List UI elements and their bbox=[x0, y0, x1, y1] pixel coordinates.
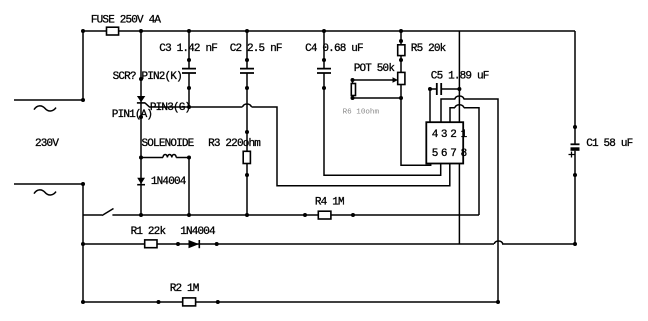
svg-text:PIN1(A): PIN1(A) bbox=[112, 109, 152, 121]
svg-text:230V: 230V bbox=[35, 138, 59, 150]
svg-text:R2 1M: R2 1M bbox=[170, 283, 199, 295]
svg-text:SCR? PIN2(K): SCR? PIN2(K) bbox=[113, 71, 182, 83]
svg-text:R4 1M: R4 1M bbox=[315, 196, 344, 208]
svg-text:R1 22k: R1 22k bbox=[131, 226, 167, 238]
svg-text:R5 20k: R5 20k bbox=[411, 43, 447, 55]
svg-text:C4 0.68 uF: C4 0.68 uF bbox=[305, 43, 363, 55]
svg-text:PIN3(G): PIN3(G) bbox=[150, 102, 190, 114]
svg-text:C5 1.89 uF: C5 1.89 uF bbox=[431, 71, 489, 83]
svg-text:C3 1.42 nF: C3 1.42 nF bbox=[159, 43, 217, 55]
svg-text:2: 2 bbox=[450, 129, 456, 141]
svg-text:7: 7 bbox=[450, 148, 456, 160]
svg-text:C1 58 uF: C1 58 uF bbox=[586, 138, 632, 150]
svg-text:R3 220ohm: R3 220ohm bbox=[208, 138, 261, 150]
svg-text:8: 8 bbox=[461, 148, 467, 160]
svg-text:SOLENOIDE: SOLENOIDE bbox=[142, 138, 195, 150]
svg-text:1N4004: 1N4004 bbox=[180, 226, 216, 238]
svg-text:POT 50k: POT 50k bbox=[354, 63, 396, 75]
svg-text:FUSE 250V 4A: FUSE 250V 4A bbox=[91, 14, 161, 26]
svg-text:3: 3 bbox=[441, 129, 447, 141]
svg-text:C2 2.5 nF: C2 2.5 nF bbox=[230, 43, 282, 55]
svg-text:5: 5 bbox=[432, 148, 438, 160]
svg-text:R6 10ohm: R6 10ohm bbox=[343, 109, 380, 117]
svg-text:6: 6 bbox=[441, 148, 447, 160]
svg-text:1N4004: 1N4004 bbox=[151, 176, 187, 188]
